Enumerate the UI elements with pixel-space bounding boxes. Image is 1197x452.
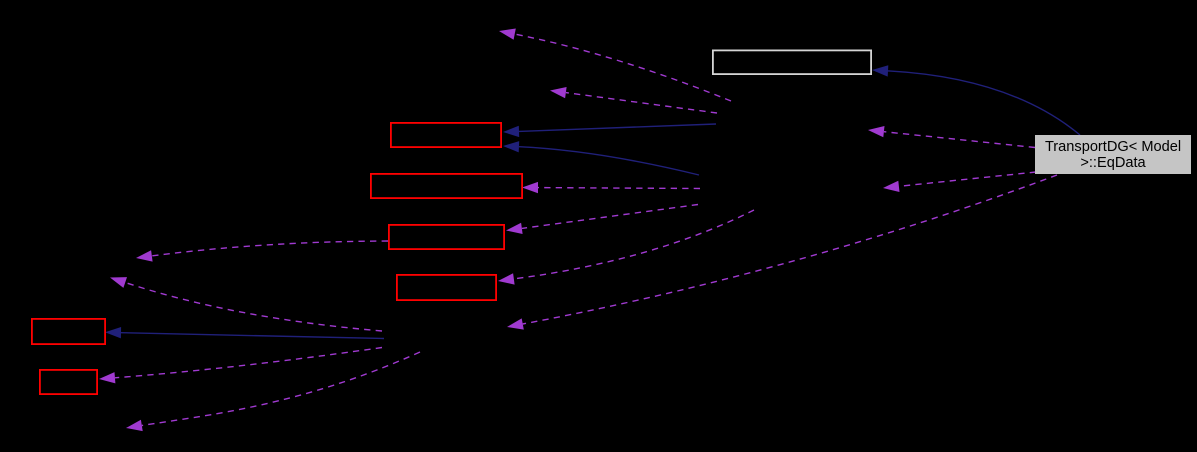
node R4 (truncated, red) <box>397 275 496 300</box>
edge from R3 to left node <box>136 241 388 262</box>
edge A2 to upper-left node <box>550 87 717 113</box>
node R1 (truncated, red) <box>391 123 501 147</box>
svg-text:>::EqData: >::EqData <box>1080 155 1146 171</box>
node R6 (truncated, red) <box>40 370 97 394</box>
edge h4 from hub to bottom-left <box>126 352 420 431</box>
svg-text:TransportDG< Model: TransportDG< Model <box>1045 139 1181 155</box>
node TransportDG< Model >::EqData (current node, gray) <box>1035 135 1191 174</box>
edge blue from EqData to white box <box>872 65 1080 135</box>
edge E4 from EqData <box>507 175 1057 330</box>
edge A1 to top-left node <box>499 29 731 102</box>
node R5 (truncated, red) <box>32 319 105 344</box>
edge E1 from EqData <box>868 126 1035 148</box>
node R3 (truncated, red) <box>389 225 504 249</box>
edge B2 blue to R1 <box>503 141 699 175</box>
edge B1 blue to R1 <box>503 124 716 137</box>
edge to R4 <box>498 210 754 285</box>
edge h1 from hub <box>110 277 382 331</box>
edge h2 blue from hub to R5 <box>105 327 384 339</box>
edge E2 from EqData <box>883 172 1036 192</box>
edge to R2 <box>522 182 700 193</box>
node R2 (truncated, red) <box>371 174 522 198</box>
node white box <box>713 50 871 74</box>
edge h3 from hub to R6 <box>99 348 382 384</box>
edge to R3 <box>506 205 698 235</box>
